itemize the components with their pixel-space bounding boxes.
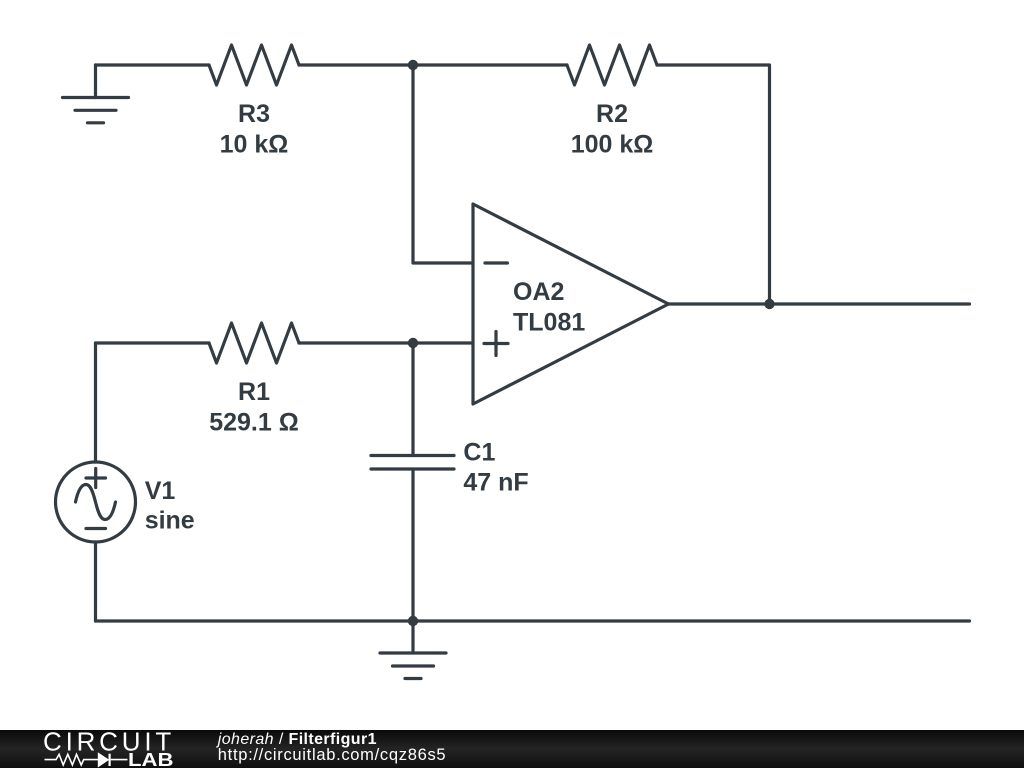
- op-amp OA2 minus pin: [485, 261, 508, 264]
- node N1: [408, 60, 418, 70]
- resistor R1: [209, 323, 299, 363]
- svg-text:529.1 Ω: 529.1 Ω: [209, 409, 299, 437]
- svg-text:http://circuitlab.com/cqz86s5: http://circuitlab.com/cqz86s5: [218, 746, 446, 764]
- svg-text:C1: C1: [463, 439, 495, 467]
- svg-text:R1: R1: [238, 378, 270, 406]
- wire: [94, 343, 97, 462]
- wire: [669, 302, 970, 305]
- voltage source V1: [56, 462, 136, 542]
- wire: [413, 65, 473, 263]
- ground GND1: [63, 65, 129, 123]
- wire: [94, 542, 97, 621]
- node N2: [764, 299, 774, 309]
- svg-text:V1: V1: [145, 477, 176, 505]
- wire: [96, 63, 210, 66]
- op-amp OA2: [473, 204, 669, 404]
- svg-text:TL081: TL081: [513, 309, 585, 337]
- resistor R2: [567, 45, 657, 85]
- svg-text:47 nF: 47 nF: [463, 469, 528, 497]
- wire: [657, 65, 770, 304]
- wire: [96, 341, 210, 344]
- ground GND2: [380, 621, 446, 679]
- svg-text:R2: R2: [596, 100, 628, 128]
- CircuitLab logo resistor-diode line: [45, 754, 128, 766]
- svg-text:sine: sine: [145, 507, 195, 535]
- capacitor C1: [371, 343, 454, 621]
- node N3: [408, 338, 418, 348]
- svg-text:10 kΩ: 10 kΩ: [220, 131, 289, 159]
- wire: [299, 341, 473, 344]
- svg-text:100 kΩ: 100 kΩ: [571, 131, 654, 159]
- footer bar: [0, 730, 1024, 768]
- svg-text:LAB: LAB: [128, 749, 174, 768]
- svg-text:R3: R3: [238, 100, 270, 128]
- wire: [96, 619, 970, 622]
- op-amp OA2 plus pin: [484, 332, 508, 356]
- resistor R3: [209, 45, 299, 85]
- node N4: [408, 616, 418, 626]
- wire: [299, 63, 567, 66]
- svg-text:OA2: OA2: [513, 278, 564, 306]
